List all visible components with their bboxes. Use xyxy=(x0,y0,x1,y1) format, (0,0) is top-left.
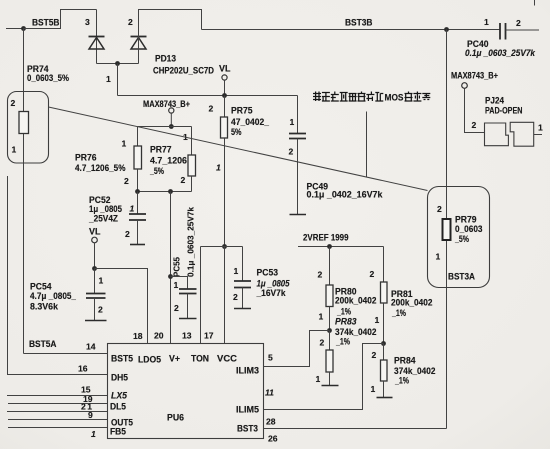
svg-text:1: 1 xyxy=(371,384,376,394)
wire PR75 bottom to VCC rail xyxy=(224,138,226,247)
wire anode to VL rail xyxy=(117,64,119,96)
svg-text:1: 1 xyxy=(290,117,295,127)
svg-text:0_0603: 0_0603 xyxy=(455,224,483,234)
svg-text:BST5: BST5 xyxy=(111,354,133,364)
svg-text:LDO5: LDO5 xyxy=(138,355,161,365)
resistor PR81 xyxy=(381,282,388,303)
wire pin21 xyxy=(7,411,107,413)
svg-text:PAD-OPEN: PAD-OPEN xyxy=(485,106,523,116)
wire PC52 top xyxy=(137,192,139,215)
svg-text:2VREF 1999: 2VREF 1999 xyxy=(303,233,349,243)
svg-text:_25V4Z: _25V4Z xyxy=(88,214,118,224)
capacitor PC54 xyxy=(86,294,106,299)
svg-text:BST5B: BST5B xyxy=(32,18,60,28)
svg-text:CHP202U_SC7D: CHP202U_SC7D xyxy=(153,66,214,76)
node BST5B junction xyxy=(21,26,26,31)
package outline BST3A xyxy=(428,187,490,288)
svg-text:PR79: PR79 xyxy=(455,215,477,225)
svg-text:2: 2 xyxy=(516,18,521,28)
wire PR80 top xyxy=(329,247,331,286)
wire PC54 top xyxy=(94,269,96,294)
svg-text:13: 13 xyxy=(182,331,192,341)
wire ILIM5 link xyxy=(264,344,384,410)
wire PR77 bottom xyxy=(191,176,193,192)
resistor PR76 xyxy=(134,146,142,169)
ground PR84 xyxy=(377,397,393,399)
node BST3B junction xyxy=(444,27,449,32)
wire PR84 top xyxy=(383,344,385,361)
svg-text:4.7_1206: 4.7_1206 xyxy=(150,156,187,166)
svg-text:FB5: FB5 xyxy=(110,427,126,437)
package outline PR74 xyxy=(8,92,49,164)
resistor PR74 xyxy=(19,112,29,134)
node anode junction xyxy=(115,61,120,66)
svg-text:LX5: LX5 xyxy=(111,391,128,401)
svg-text:PR75: PR75 xyxy=(231,106,253,116)
svg-text:1: 1 xyxy=(91,429,96,439)
IC PU6 body xyxy=(108,344,264,439)
svg-text:2: 2 xyxy=(98,305,103,315)
svg-text:BST5A: BST5A xyxy=(29,339,57,349)
svg-text:BST3A: BST3A xyxy=(448,272,475,282)
wire D2 cathode to BST3B xyxy=(139,10,202,64)
svg-text:2: 2 xyxy=(472,120,477,130)
node PC54 junction xyxy=(92,266,97,271)
svg-text:3: 3 xyxy=(85,17,90,27)
wire ILIM3 pin5 xyxy=(264,331,330,367)
svg-text:9: 9 xyxy=(88,410,93,420)
svg-text:2: 2 xyxy=(11,98,16,108)
wire PR83 bottom xyxy=(329,372,331,386)
svg-text:DL5: DL5 xyxy=(110,402,126,412)
wire VL rail xyxy=(118,95,298,97)
svg-text:2: 2 xyxy=(128,17,133,27)
annotation leader line xyxy=(366,112,368,178)
svg-text:0.1μ _0603_25V7k: 0.1μ _0603_25V7k xyxy=(186,207,196,277)
wire PC53 bottom xyxy=(242,288,244,309)
svg-text:16: 16 xyxy=(78,364,88,374)
svg-text:0.1μ _0603_25V7k: 0.1μ _0603_25V7k xyxy=(465,48,536,58)
ground PC52 xyxy=(130,244,145,246)
svg-text:BST3: BST3 xyxy=(237,424,258,434)
wire PC54 bottom xyxy=(94,298,96,321)
svg-text:PC55: PC55 xyxy=(172,257,182,277)
wire LX5 pin15 xyxy=(7,395,107,397)
svg-text:8.3V6k: 8.3V6k xyxy=(30,302,59,312)
wire PC53 drop xyxy=(242,247,244,282)
wire MAX terminal drop xyxy=(170,113,172,126)
svg-text:1: 1 xyxy=(538,123,543,133)
svg-text:2: 2 xyxy=(209,104,214,114)
wire PR76 top xyxy=(137,127,139,147)
svg-text:V+: V+ xyxy=(169,354,180,364)
svg-text:374k_0402: 374k_0402 xyxy=(394,366,436,376)
svg-text:1: 1 xyxy=(319,312,324,322)
node LDO5 junction xyxy=(168,189,173,194)
svg-text:4.7μ _0805_: 4.7μ _0805_ xyxy=(30,291,77,301)
resistor PR75 xyxy=(221,117,228,138)
svg-text:26: 26 xyxy=(268,434,278,444)
wire BST5B stub left xyxy=(6,28,24,30)
svg-text:PR84: PR84 xyxy=(394,356,416,366)
wire PR75 top xyxy=(224,96,226,118)
svg-text:0.1μ _0402_16V7k: 0.1μ _0402_16V7k xyxy=(307,190,384,200)
svg-text:ILIM5: ILIM5 xyxy=(236,405,259,415)
jumper pad right PJ24 xyxy=(510,122,534,146)
wire DH5 pin16 xyxy=(8,176,108,375)
ground PC53 xyxy=(234,308,251,310)
wire PR76 PR77 bottom rail xyxy=(138,191,192,193)
ground PR83 xyxy=(322,385,339,387)
svg-text:MOS: MOS xyxy=(385,93,404,103)
wire top right stub xyxy=(534,0,536,6)
diode PD13 section 3 xyxy=(89,37,105,50)
svg-text:PJ24: PJ24 xyxy=(485,96,504,106)
svg-text:MAX8743_B+: MAX8743_B+ xyxy=(451,71,498,81)
node 2VREF junction xyxy=(327,244,332,249)
svg-text:5: 5 xyxy=(268,353,273,363)
wire cathode D3 xyxy=(96,10,98,64)
svg-text:0_0603_5%: 0_0603_5% xyxy=(27,73,69,83)
resistor PR77 xyxy=(188,155,196,176)
svg-text:200k_0402: 200k_0402 xyxy=(391,298,433,308)
wire PJ24 pin1 xyxy=(534,134,542,136)
svg-text:PR77: PR77 xyxy=(150,145,172,155)
wire BST3 vertical xyxy=(446,30,448,429)
wire PR77 top xyxy=(191,127,193,156)
svg-text:2: 2 xyxy=(289,147,294,157)
svg-text:1μ _0805: 1μ _0805 xyxy=(89,204,122,214)
wire PR80 bottom xyxy=(329,307,331,331)
capacitor PC55 xyxy=(179,289,197,294)
svg-text:VL: VL xyxy=(219,64,231,74)
svg-text:2: 2 xyxy=(372,350,377,360)
wire PR76 bottom xyxy=(137,169,139,192)
svg-text:1: 1 xyxy=(12,145,17,155)
terminal VL xyxy=(222,75,227,80)
wire TON pin13 xyxy=(200,247,202,344)
wire to pin 18 xyxy=(95,269,148,344)
svg-text:MAX8743_B+: MAX8743_B+ xyxy=(143,99,190,109)
wire 2VREF rail xyxy=(298,246,384,248)
wire PC55 bottom xyxy=(187,294,189,319)
strike line across schematic xyxy=(49,107,428,191)
svg-text:BST3B: BST3B xyxy=(345,18,373,28)
resistor PR84 xyxy=(381,360,388,381)
node PC55 junction xyxy=(168,274,173,279)
svg-text:PR83: PR83 xyxy=(335,317,357,327)
svg-text:1μ _0805: 1μ _0805 xyxy=(257,279,291,289)
svg-text:2: 2 xyxy=(124,176,129,186)
svg-text:_1%: _1% xyxy=(335,337,350,347)
wire BST5 pin14 xyxy=(24,353,108,355)
svg-text:PC53: PC53 xyxy=(257,268,279,278)
capacitor PC49 xyxy=(289,134,306,139)
terminal MAX8743_B+ right xyxy=(462,83,468,89)
svg-text:1: 1 xyxy=(106,74,111,84)
svg-text:2: 2 xyxy=(174,303,179,313)
svg-text:1: 1 xyxy=(130,204,135,214)
wire BST3B rail xyxy=(202,29,501,31)
svg-text:15: 15 xyxy=(81,385,91,395)
capacitor PC53 xyxy=(234,281,251,288)
svg-text:2: 2 xyxy=(320,338,325,348)
svg-text:2: 2 xyxy=(437,204,442,214)
svg-text:VL: VL xyxy=(89,227,101,237)
svg-text:1: 1 xyxy=(99,276,104,286)
wire VCC pin17 xyxy=(224,247,226,344)
terminal VL lower xyxy=(92,237,98,243)
svg-text:1: 1 xyxy=(234,266,239,276)
ground PC55 xyxy=(179,318,197,320)
svg-text:1: 1 xyxy=(436,252,441,262)
ground PC49 xyxy=(290,214,307,216)
svg-text:2: 2 xyxy=(181,175,186,185)
svg-text:PC54: PC54 xyxy=(30,282,52,292)
svg-text:14: 14 xyxy=(86,342,96,352)
svg-text:TON: TON xyxy=(191,354,209,364)
svg-text:1: 1 xyxy=(316,374,321,384)
svg-text:_16V7k: _16V7k xyxy=(256,288,287,298)
wire anode common xyxy=(97,63,139,65)
wire PR76 PR77 top rail xyxy=(138,126,192,128)
svg-text:VCC: VCC xyxy=(217,354,238,364)
wire PC40 right xyxy=(506,29,540,31)
svg-text:1: 1 xyxy=(216,163,221,173)
resistor PR83 xyxy=(326,350,333,372)
svg-text:DH5: DH5 xyxy=(111,373,128,383)
svg-text:11: 11 xyxy=(265,388,274,398)
resistor PR80 xyxy=(326,285,333,307)
svg-text:47_0402_: 47_0402_ xyxy=(231,117,270,127)
wire VL terminal drop xyxy=(224,80,226,95)
svg-text:2: 2 xyxy=(370,269,375,279)
ground PC54 xyxy=(85,320,107,322)
wire DL5 pin19 xyxy=(8,403,107,405)
resistor PR79 xyxy=(443,219,451,240)
svg-text:17: 17 xyxy=(204,331,214,341)
wire PC49 bottom xyxy=(297,139,299,215)
svg-text:PR76: PR76 xyxy=(75,153,97,163)
wire LDO5 pin20 xyxy=(170,192,172,344)
svg-text:20: 20 xyxy=(154,331,164,341)
svg-text:4.7_1206_5%: 4.7_1206_5% xyxy=(75,163,126,173)
wire OUT5 pin9 xyxy=(8,419,107,421)
wire PR81 top xyxy=(383,247,385,283)
wire BST5B to step xyxy=(24,10,97,29)
jumper pad left PJ24 xyxy=(485,123,509,146)
svg-text:PD13: PD13 xyxy=(155,54,176,64)
wire PR83 top xyxy=(329,331,331,351)
svg-text:_5%: _5% xyxy=(149,166,164,176)
wire PR84 bottom xyxy=(383,381,385,398)
node PC52 junction xyxy=(135,189,140,194)
svg-text:28: 28 xyxy=(266,417,276,427)
annotation text: mei you zhe liang dian zu dao zhi MOS guan fa re xyxy=(313,92,430,102)
svg-text:1: 1 xyxy=(174,280,179,290)
diode PD13 section 2 xyxy=(131,37,147,50)
node MAX junction xyxy=(169,124,174,129)
wire PR81 bottom xyxy=(383,303,385,344)
node ILIM5 junction xyxy=(381,341,386,346)
svg-text:1: 1 xyxy=(375,315,380,325)
svg-text:PU6: PU6 xyxy=(167,413,184,423)
svg-text:_1%: _1% xyxy=(391,308,406,318)
svg-text:374k_0402: 374k_0402 xyxy=(335,327,377,337)
svg-text:2: 2 xyxy=(125,229,130,239)
terminal MAX8743_B+ left xyxy=(169,108,174,113)
svg-text:2: 2 xyxy=(233,292,238,302)
node VL junction xyxy=(222,93,227,98)
svg-text:1: 1 xyxy=(484,17,489,27)
svg-text:_1%: _1% xyxy=(394,376,409,386)
svg-text:200k_0402: 200k_0402 xyxy=(335,296,377,306)
wire MAX right to PJ24 xyxy=(465,89,485,133)
wire BST3 pin28 xyxy=(264,428,447,430)
capacitor PC52 xyxy=(129,214,146,220)
svg-text:2: 2 xyxy=(318,270,323,280)
capacitor PC40 xyxy=(500,23,506,40)
node ILIM3 junction xyxy=(327,328,332,333)
svg-text:18: 18 xyxy=(133,331,143,341)
svg-text:5%: 5% xyxy=(231,127,242,137)
svg-text:1: 1 xyxy=(122,139,127,149)
wire FB5 xyxy=(8,427,107,429)
svg-text:_5%: _5% xyxy=(454,234,469,244)
svg-text:ILIM3: ILIM3 xyxy=(236,366,259,376)
wire PC55 tap xyxy=(171,277,188,290)
wire VCC rail xyxy=(201,246,243,248)
wire PC49 drop xyxy=(297,96,299,134)
node VCC junction xyxy=(222,244,227,249)
svg-text:_1%: _1% xyxy=(336,307,351,317)
wire VL lower drop xyxy=(94,243,96,269)
wire left vertical BST5 xyxy=(23,29,25,354)
wire PC52 bottom xyxy=(137,220,139,245)
